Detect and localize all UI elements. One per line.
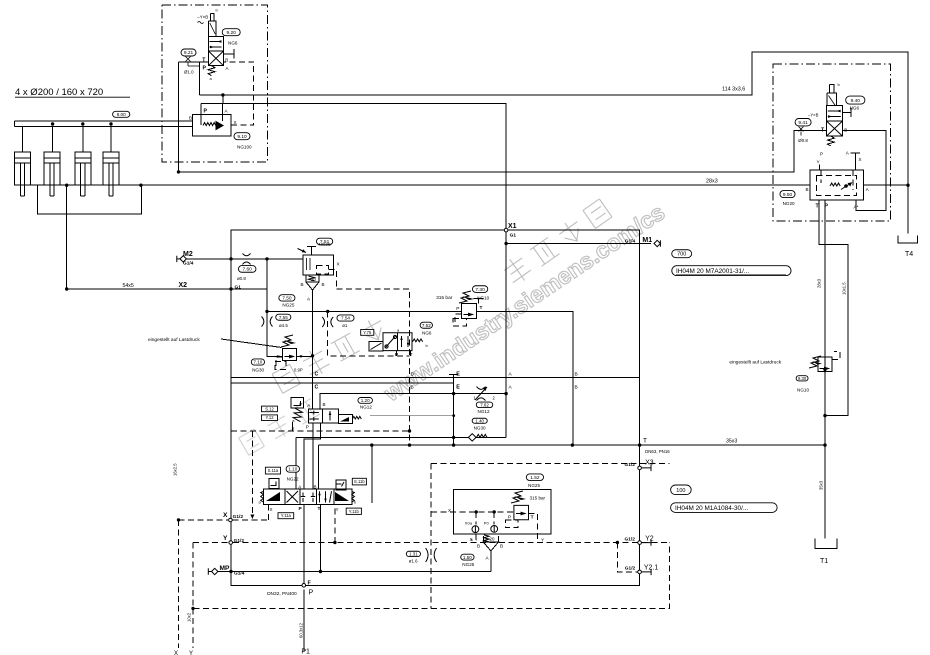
svg-text:–Y×B: –Y×B <box>197 15 208 20</box>
svg-text:S.11a: S.11a <box>268 468 279 473</box>
svg-text:7.55: 7.55 <box>279 315 288 320</box>
svg-text:NG6: NG6 <box>228 41 238 46</box>
svg-text:10x1.5: 10x1.5 <box>842 282 847 295</box>
svg-text:NG25: NG25 <box>528 483 540 488</box>
svg-text:X0a: X0a <box>465 520 473 525</box>
svg-text:E: E <box>456 385 460 391</box>
svg-text:T4: T4 <box>905 251 913 258</box>
svg-text:315 bar: 315 bar <box>530 495 546 500</box>
svg-text:G1/4: G1/4 <box>183 261 194 267</box>
svg-text:Y2: Y2 <box>645 536 654 543</box>
svg-text:7.50: 7.50 <box>282 296 292 302</box>
svg-text:P: P <box>306 424 309 429</box>
svg-text:7.30: 7.30 <box>475 287 485 293</box>
svg-text:Y: Y <box>223 535 228 542</box>
svg-text:Y.12: Y.12 <box>265 415 274 420</box>
svg-text:G1/2: G1/2 <box>234 538 245 544</box>
svg-text:T1: T1 <box>820 558 828 565</box>
svg-text:T: T <box>531 514 534 520</box>
svg-text:10x2: 10x2 <box>187 612 192 622</box>
svg-text:7.60: 7.60 <box>243 267 253 273</box>
svg-text:7.52: 7.52 <box>422 323 431 328</box>
svg-text:ø1: ø1 <box>342 323 348 328</box>
svg-text:X: X <box>337 262 340 267</box>
svg-text:G1/2: G1/2 <box>625 565 636 571</box>
svg-text:X2: X2 <box>179 282 188 289</box>
svg-text:X: X <box>223 512 228 519</box>
svg-text:9.50: 9.50 <box>783 192 793 198</box>
svg-text:P: P <box>309 590 314 597</box>
svg-text:IH04M 20 M7A2001-31/...: IH04M 20 M7A2001-31/... <box>676 268 749 275</box>
svg-text:35x3: 35x3 <box>726 438 737 444</box>
svg-text:Y2.1: Y2.1 <box>644 564 659 571</box>
svg-text:Ø1.0: Ø1.0 <box>184 70 194 75</box>
svg-text:S.12: S.12 <box>265 406 274 411</box>
svg-text:100: 100 <box>676 488 685 494</box>
svg-text:4 x Ø200 / 160 x 720: 4 x Ø200 / 160 x 720 <box>15 87 103 98</box>
svg-text:B: B <box>575 371 578 377</box>
svg-text:P: P <box>508 514 511 520</box>
svg-text:E: E <box>456 371 460 377</box>
svg-text:NG6: NG6 <box>850 106 860 111</box>
svg-text:eingestellt auf Lastdruck: eingestellt auf Lastdruck <box>729 360 781 366</box>
svg-text:X3: X3 <box>645 459 654 466</box>
svg-text:P: P <box>203 66 207 72</box>
svg-text:B: B <box>314 485 317 490</box>
svg-text:X: X <box>470 537 473 542</box>
svg-text:P: P <box>204 109 208 115</box>
svg-text:T: T <box>318 506 321 512</box>
svg-text:B: B <box>322 282 325 287</box>
svg-text:NG25: NG25 <box>282 302 294 307</box>
svg-text:Y: Y <box>817 159 820 164</box>
svg-text:G1: G1 <box>510 233 517 239</box>
svg-text:NG12: NG12 <box>360 404 372 409</box>
svg-text:M1: M1 <box>642 237 652 244</box>
svg-text:NG100: NG100 <box>237 145 252 150</box>
svg-text:B: B <box>575 384 578 390</box>
svg-text:B: B <box>189 116 192 121</box>
svg-text:ø1.6: ø1.6 <box>409 559 418 564</box>
svg-text:G1/2: G1/2 <box>233 514 244 520</box>
svg-text:NG6: NG6 <box>422 331 432 336</box>
svg-text:D: D <box>411 371 415 377</box>
svg-text:MP: MP <box>220 565 230 572</box>
svg-text:B: B <box>301 282 304 287</box>
svg-text:1.20: 1.20 <box>361 398 370 403</box>
svg-text:NG12: NG12 <box>478 409 490 414</box>
svg-text:9.10: 9.10 <box>237 134 247 140</box>
svg-text:9.41: 9.41 <box>798 120 808 126</box>
svg-text:B: B <box>844 128 847 133</box>
svg-text:Y: Y <box>336 507 339 512</box>
svg-text:0.9P: 0.9P <box>294 367 303 372</box>
svg-text:T: T <box>300 354 303 360</box>
svg-text:DN32, PN400: DN32, PN400 <box>267 591 297 597</box>
svg-text:9.30: 9.30 <box>798 376 807 381</box>
svg-text:C: C <box>315 384 319 390</box>
svg-text:X: X <box>292 426 295 431</box>
svg-text:1.31: 1.31 <box>409 551 418 556</box>
svg-text:X: X <box>270 507 273 512</box>
svg-text:8.00: 8.00 <box>117 112 126 117</box>
svg-text:NG20: NG20 <box>783 201 795 206</box>
svg-text:DN63, PN16: DN63, PN16 <box>645 449 670 454</box>
svg-text:ø4.5: ø4.5 <box>279 323 288 328</box>
svg-text:C: C <box>315 371 319 377</box>
svg-text:X: X <box>448 508 451 513</box>
svg-text:54x5: 54x5 <box>123 283 134 289</box>
svg-text:IH04M 20 M1A1084-30/...: IH04M 20 M1A1084-30/... <box>675 505 748 512</box>
svg-text:20: 20 <box>311 277 316 282</box>
svg-text:X1: X1 <box>508 223 517 230</box>
svg-text:Y: Y <box>541 537 544 542</box>
svg-text:P: P <box>456 306 459 312</box>
svg-text:G1/2: G1/2 <box>625 536 636 542</box>
svg-text:1.52: 1.52 <box>530 475 540 481</box>
svg-text:28x3: 28x3 <box>817 278 822 288</box>
svg-text:S.11b: S.11b <box>354 479 365 484</box>
svg-text:A*: A* <box>854 205 859 210</box>
svg-text:1.40: 1.40 <box>475 418 484 423</box>
svg-text:B: B <box>323 402 326 407</box>
svg-text:T: T <box>410 352 413 358</box>
svg-text:P0: P0 <box>484 520 490 525</box>
svg-text:7.54: 7.54 <box>341 316 350 321</box>
svg-text:NG22: NG22 <box>287 477 299 482</box>
svg-text:B: B <box>411 384 414 390</box>
svg-text:eingestellt auf Lastdruck: eingestellt auf Lastdruck <box>148 337 200 343</box>
svg-text:Ø0.8: Ø0.8 <box>798 138 808 143</box>
svg-text:P1: P1 <box>301 648 310 655</box>
svg-text:7.10: 7.10 <box>253 360 262 365</box>
svg-text:G1/2: G1/2 <box>625 462 636 468</box>
svg-text:T: T <box>643 438 647 445</box>
svg-text:28x3: 28x3 <box>706 179 718 185</box>
svg-text:700: 700 <box>677 252 686 258</box>
svg-text:G1/4: G1/4 <box>234 570 245 576</box>
svg-text:T: T <box>480 305 483 311</box>
svg-text:1.10: 1.10 <box>288 467 297 472</box>
svg-text:NG30: NG30 <box>474 425 486 430</box>
svg-text:Y: Y <box>189 651 193 655</box>
svg-text:NG25: NG25 <box>462 562 474 567</box>
svg-text:–Y×B: –Y×B <box>808 113 819 118</box>
svg-text:Y.11b: Y.11b <box>349 509 360 514</box>
svg-text:9.21: 9.21 <box>184 50 194 56</box>
svg-text:7.62: 7.62 <box>480 402 489 407</box>
svg-text:G1/4: G1/4 <box>625 238 636 244</box>
svg-text:B: B <box>477 543 480 548</box>
svg-text:M2: M2 <box>183 251 193 258</box>
svg-text:NG30: NG30 <box>252 368 264 373</box>
svg-text:P: P <box>825 204 829 210</box>
svg-text:16x2.5: 16x2.5 <box>173 463 178 476</box>
svg-text:X: X <box>234 120 237 125</box>
svg-text:20: 20 <box>490 537 495 542</box>
svg-text:1.50: 1.50 <box>463 555 472 560</box>
svg-text:B: B <box>500 543 503 548</box>
svg-text:35x3: 35x3 <box>819 480 824 490</box>
svg-text:X: X <box>174 651 178 655</box>
svg-text:B: B <box>225 58 228 63</box>
svg-text:ø0.8: ø0.8 <box>237 276 246 281</box>
svg-text:G1: G1 <box>235 285 242 291</box>
svg-text:P: P <box>820 152 823 157</box>
svg-text:P: P <box>277 354 280 360</box>
svg-text:X: X <box>859 157 862 162</box>
svg-text:Y.11a: Y.11a <box>281 513 292 518</box>
svg-text:NG10: NG10 <box>797 388 809 393</box>
svg-text:Y.75: Y.75 <box>363 330 372 335</box>
svg-text:NG10: NG10 <box>477 295 489 300</box>
svg-text:60,3x12: 60,3x12 <box>299 622 304 638</box>
svg-text:9.40: 9.40 <box>851 98 861 104</box>
svg-text:315 bar: 315 bar <box>436 295 453 301</box>
svg-text:B: B <box>806 187 809 192</box>
svg-text:9.20: 9.20 <box>227 30 237 36</box>
svg-text:114 3x3,6: 114 3x3,6 <box>722 87 745 93</box>
svg-text:NG25: NG25 <box>319 242 331 247</box>
